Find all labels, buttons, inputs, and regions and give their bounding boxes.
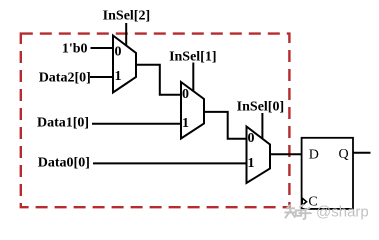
svg-text:1'b0: 1'b0 bbox=[62, 42, 88, 57]
mux U2 pin label 1 bbox=[182, 116, 189, 131]
svg-text:InSel[1]: InSel[1] bbox=[169, 50, 216, 65]
svg-text:@sharp: @sharp bbox=[316, 204, 369, 221]
net label Data1[0] bbox=[37, 116, 89, 131]
wire InSel[1] select to mux U2 bbox=[192, 63, 194, 93]
wire flip-flop Q output bbox=[353, 152, 371, 154]
svg-text:1: 1 bbox=[182, 116, 189, 131]
net label InSel[1] bbox=[169, 50, 216, 65]
mux U1 pin label 0 bbox=[115, 45, 122, 60]
svg-text:0: 0 bbox=[182, 87, 189, 102]
wire Data2[0] to mux U1 pin 1 bbox=[90, 76, 114, 78]
svg-text:1: 1 bbox=[115, 69, 122, 84]
mux U1 pin label 1 bbox=[115, 69, 122, 84]
flip-flop pin label D bbox=[309, 148, 319, 163]
svg-text:Data1[0]: Data1[0] bbox=[37, 116, 89, 131]
wire InSel[0] select to mux U3 bbox=[261, 113, 263, 140]
mux U2 (select InSel[1]) bbox=[181, 82, 204, 139]
svg-text:0: 0 bbox=[248, 131, 255, 146]
svg-text:0: 0 bbox=[115, 45, 122, 60]
svg-text:InSel[2]: InSel[2] bbox=[103, 8, 150, 23]
svg-text:InSel[0]: InSel[0] bbox=[237, 99, 284, 114]
mux U2 pin label 0 bbox=[182, 87, 189, 102]
watermark bbox=[285, 205, 312, 219]
net label Data0[0] bbox=[38, 156, 90, 171]
mux U3 pin label 0 bbox=[248, 131, 255, 146]
flip-flop pin label C bbox=[308, 195, 317, 210]
flip-flop U4 body bbox=[302, 138, 353, 209]
mux U3 (select InSel[0]) bbox=[247, 127, 271, 184]
net label 1'b0 bbox=[62, 42, 88, 57]
net label Data2[0] bbox=[39, 71, 91, 86]
flip-flop pin label Q bbox=[339, 147, 349, 162]
svg-text:1: 1 bbox=[248, 156, 255, 171]
wire InSel[2] select to mux U1 bbox=[125, 23, 127, 46]
wire 1'b0 to mux U1 pin 0 bbox=[91, 47, 115, 49]
wire mux U3 output to flip-flop D input bbox=[270, 153, 303, 155]
wire Data0[0] to mux U3 pin 1 bbox=[93, 162, 248, 164]
mux U3 pin label 1 bbox=[248, 156, 255, 171]
svg-text:Data0[0]: Data0[0] bbox=[38, 156, 90, 171]
flip-flop clock edge triangle bbox=[302, 198, 306, 205]
wire Data1[0] to mux U2 pin 1 bbox=[92, 123, 182, 125]
wire mux U1 output to mux U2 pin 0 bbox=[136, 65, 182, 95]
svg-text:Data2[0]: Data2[0] bbox=[39, 71, 91, 86]
dashed region boundary bbox=[21, 34, 290, 208]
svg-text:Q: Q bbox=[339, 147, 349, 162]
mux U1 (select InSel[2]) bbox=[113, 36, 136, 93]
net label InSel[2] bbox=[103, 8, 150, 23]
net label InSel[0] bbox=[237, 99, 284, 114]
svg-text:D: D bbox=[309, 148, 319, 163]
wire mux U2 output to mux U3 pin 0 bbox=[204, 112, 248, 139]
